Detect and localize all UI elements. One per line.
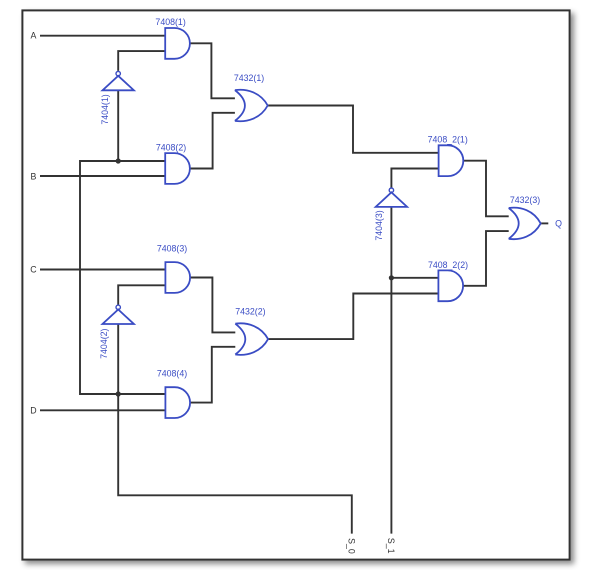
svg-text:A: A: [30, 31, 36, 41]
svg-text:7408(4): 7408(4): [157, 369, 187, 379]
svg-text:7432(2): 7432(2): [235, 306, 265, 316]
svg-text:7408(3): 7408(3): [157, 244, 187, 254]
svg-text:7408_2(2): 7408_2(2): [428, 260, 468, 270]
svg-text:7404(1): 7404(1): [100, 94, 110, 124]
svg-text:7408_2(1): 7408_2(1): [428, 134, 468, 144]
svg-text:7404(3): 7404(3): [374, 210, 384, 240]
svg-text:7408(2): 7408(2): [156, 143, 186, 153]
svg-text:7432(3): 7432(3): [510, 195, 540, 205]
svg-text:7432(1): 7432(1): [234, 73, 264, 83]
svg-text:S_0: S_0: [346, 538, 356, 554]
svg-text:S_1: S_1: [386, 538, 396, 554]
svg-text:B: B: [30, 171, 36, 181]
svg-text:7404(2): 7404(2): [99, 328, 109, 358]
svg-text:Q: Q: [555, 219, 562, 229]
svg-text:C: C: [30, 265, 37, 275]
svg-text:D: D: [30, 405, 36, 415]
svg-text:7408(1): 7408(1): [155, 17, 185, 27]
